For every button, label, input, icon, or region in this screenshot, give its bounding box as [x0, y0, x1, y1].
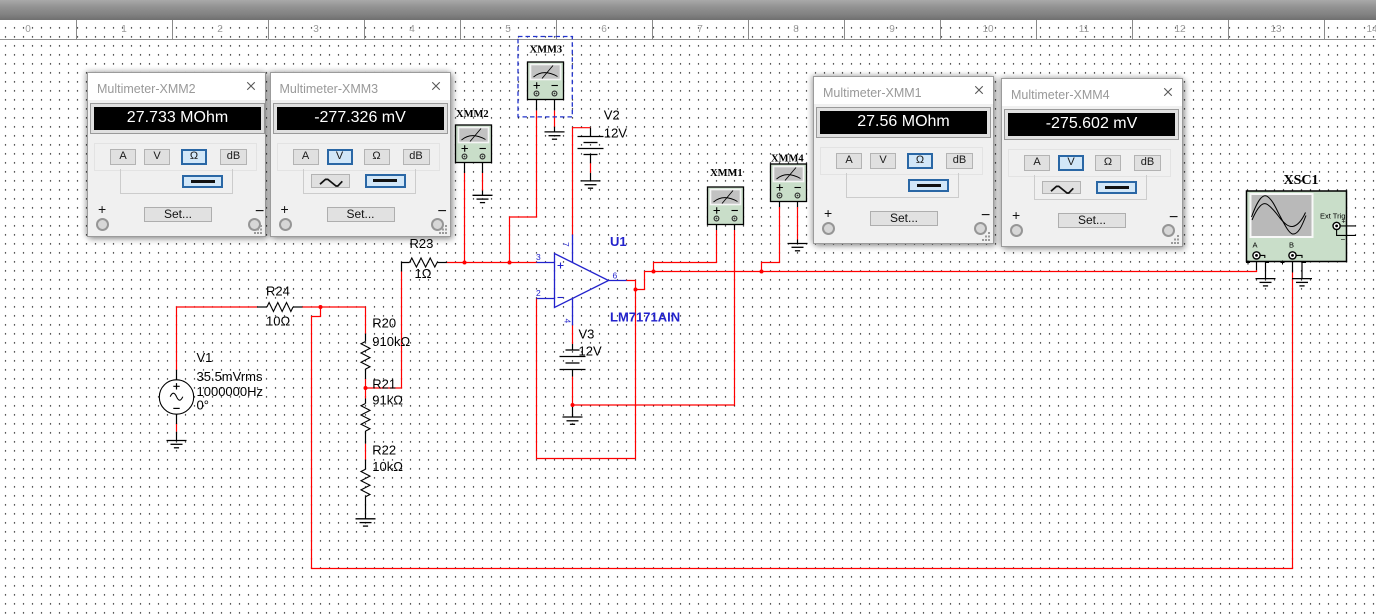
svg-text:V1: V1 [197, 350, 213, 365]
svg-text:A: A [1253, 241, 1258, 250]
svg-text:LM7171AIN: LM7171AIN [610, 310, 680, 325]
svg-text:1Ω: 1Ω [415, 266, 432, 281]
svg-text:R21: R21 [372, 377, 396, 392]
svg-text:10: 10 [982, 24, 994, 35]
svg-text:5: 5 [505, 24, 511, 35]
svg-text:V3: V3 [579, 327, 595, 342]
svg-text:R22: R22 [372, 443, 396, 458]
svg-text:12V: 12V [579, 344, 602, 359]
svg-text:U1: U1 [610, 234, 627, 249]
svg-text:12: 12 [1174, 24, 1186, 35]
svg-text:4: 4 [563, 319, 573, 324]
svg-text:6: 6 [601, 24, 607, 35]
svg-text:7: 7 [561, 242, 571, 247]
svg-text:+: + [1342, 219, 1346, 226]
svg-text:11: 11 [1079, 24, 1090, 35]
svg-text:V2: V2 [604, 108, 620, 123]
svg-text:−: − [1341, 235, 1346, 244]
svg-text:4: 4 [409, 24, 415, 35]
svg-text:XMM1: XMM1 [710, 168, 743, 179]
svg-text:9: 9 [889, 24, 895, 35]
svg-text:1: 1 [121, 24, 127, 35]
svg-text:10Ω: 10Ω [266, 314, 290, 329]
svg-text:R24: R24 [266, 284, 290, 299]
svg-text:B: B [1289, 241, 1294, 250]
svg-text:13: 13 [1270, 24, 1282, 35]
svg-text:8: 8 [793, 24, 799, 35]
svg-text:2: 2 [536, 288, 541, 298]
svg-text:R23: R23 [410, 236, 434, 251]
svg-text:12V: 12V [604, 126, 627, 141]
svg-text:XMM3: XMM3 [530, 45, 563, 56]
svg-text:10kΩ: 10kΩ [372, 459, 403, 474]
svg-text:XSC1: XSC1 [1284, 173, 1319, 188]
svg-text:XMM4: XMM4 [771, 154, 804, 165]
svg-text:3: 3 [313, 24, 319, 35]
svg-text:XMM2: XMM2 [456, 109, 489, 120]
svg-text:910kΩ: 910kΩ [372, 334, 410, 349]
svg-text:2: 2 [217, 24, 223, 35]
svg-text:0: 0 [25, 24, 31, 35]
svg-text:91kΩ: 91kΩ [372, 393, 403, 408]
svg-text:3: 3 [536, 252, 541, 262]
svg-text:7: 7 [697, 24, 703, 35]
svg-text:6: 6 [613, 271, 618, 281]
svg-text:0°: 0° [197, 398, 209, 413]
svg-text:14: 14 [1366, 24, 1376, 35]
svg-text:35.5mVrms: 35.5mVrms [197, 369, 263, 384]
svg-text:R20: R20 [372, 316, 396, 331]
